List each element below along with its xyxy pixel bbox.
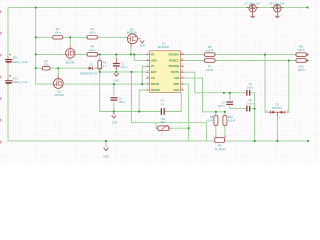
wire long loop x=131.5 down and across y=122.7 xyxy=(132,72,207,141)
wire R2-R3 row y=37.3 xyxy=(36,36,53,38)
svg-text:C1: C1 xyxy=(121,61,125,65)
svg-text:R7: R7 xyxy=(208,65,212,69)
wire R10 top stub xyxy=(224,112,226,116)
resistor R6 xyxy=(204,45,215,56)
wire C1 bottom xyxy=(115,68,117,72)
transistor Q1 xyxy=(53,75,64,97)
wire Q3 drain drop xyxy=(69,37,71,46)
wire R5 bottom to gnd row xyxy=(99,69,101,111)
svg-text:1 u: 1 u xyxy=(160,102,164,106)
wire left column battery mid xyxy=(7,64,9,78)
resistor R4 xyxy=(87,45,98,57)
svg-text:33 k: 33 k xyxy=(44,62,50,66)
svg-text:2N7002: 2N7002 xyxy=(54,93,64,97)
svg-text:SRP: SRP xyxy=(173,82,179,86)
ground under C1 xyxy=(114,73,120,83)
svg-text:R4: R4 xyxy=(91,45,95,49)
ground under C2 xyxy=(112,112,118,124)
battery BT2 xyxy=(5,75,27,85)
svg-text:100 R: 100 R xyxy=(206,119,213,123)
right pin stubs xyxy=(180,55,184,91)
wire IC pin7 to C3 row xyxy=(139,90,146,112)
svg-text:100 R: 100 R xyxy=(228,119,235,123)
wire C1 top drop xyxy=(115,54,117,58)
svg-text:PG/TS: PG/TS xyxy=(171,70,179,74)
svg-text:ISN: ISN xyxy=(174,76,179,80)
svg-text:R12: R12 xyxy=(299,65,304,69)
wire Q1 gate riser xyxy=(57,68,59,75)
wire row y=54.4 to IC pin1 xyxy=(36,53,66,55)
resistor R9 shunt xyxy=(213,136,229,151)
polarized cap C7 (top right) xyxy=(244,2,260,18)
svg-text:C8 100u 10V: C8 100u 10V xyxy=(269,2,285,6)
wire IC right row5 loop to R8/R10 top row xyxy=(184,78,225,112)
svg-text:BAT54C: BAT54C xyxy=(272,106,282,110)
svg-text:BSS138: BSS138 xyxy=(127,31,137,35)
wire R8 top stub xyxy=(215,112,217,116)
svg-text:PG/SDA: PG/SDA xyxy=(169,52,179,56)
wire thermistor right to SRP drop xyxy=(171,127,189,129)
resistor R12 xyxy=(296,59,307,72)
pin numbers left xyxy=(147,53,149,91)
svg-text:U1: U1 xyxy=(162,42,166,46)
svg-text:100 R: 100 R xyxy=(298,68,305,72)
wire D2 common cathode drop to rail xyxy=(276,116,278,141)
wire IC pin3 L x=142.2 xyxy=(142,66,146,84)
svg-text:BS108: BS108 xyxy=(66,60,75,64)
wire bottom rail right of shunt xyxy=(225,140,309,142)
wire C2 bottom drop xyxy=(113,102,115,112)
svg-text:R10: R10 xyxy=(228,115,233,119)
svg-text:100 n: 100 n xyxy=(247,102,254,106)
wire thermistor left L xyxy=(156,123,158,129)
svg-text:Battery_Cell: Battery_Cell xyxy=(12,60,27,64)
svg-text:MBR0540T1G: MBR0540T1G xyxy=(80,72,97,76)
transistor Q3 xyxy=(66,46,75,65)
resistor R8 xyxy=(206,115,218,125)
wire Q2 source drop xyxy=(130,47,132,54)
wire IC right row4 loop to C5 row xyxy=(184,72,247,93)
wire C2 riser xyxy=(113,84,115,95)
capacitor C3 xyxy=(160,99,164,115)
wire R5 top xyxy=(99,54,101,60)
wire C5 right to drop rail xyxy=(250,93,254,141)
wire R1-D1 row y=68.2 xyxy=(36,67,43,69)
wire REGN row y=84.1 xyxy=(36,83,53,85)
svg-text:1 k: 1 k xyxy=(103,64,107,68)
svg-text:R11: R11 xyxy=(299,45,304,49)
svg-text:C3: C3 xyxy=(160,99,164,103)
svg-text:100 n: 100 n xyxy=(218,104,225,108)
svg-text:GND: GND xyxy=(112,121,118,124)
wire VSS drop below IC xyxy=(180,93,182,112)
resistor R2 xyxy=(53,27,63,39)
wire vertical feed x=35.7 xyxy=(35,8,37,85)
resistor R7 xyxy=(204,59,215,72)
wire drop to diode pin1 xyxy=(265,55,268,113)
thermistor TH1 xyxy=(156,117,171,131)
svg-text:BT2: BT2 xyxy=(13,77,18,81)
polarized cap C8 (top right) xyxy=(269,2,285,18)
IC U1 xyxy=(146,42,184,93)
resistor R3 xyxy=(87,27,97,39)
svg-text:R8: R8 xyxy=(210,115,214,119)
pin numbers right xyxy=(181,53,184,91)
svg-text:Battery_Cell: Battery_Cell xyxy=(12,80,27,84)
svg-text:R1: R1 xyxy=(44,59,48,63)
svg-text:BT1: BT1 xyxy=(13,56,18,60)
svg-text:100 n: 100 n xyxy=(118,100,125,104)
svg-text:REG25: REG25 xyxy=(151,88,160,92)
svg-text:PS/HDQ: PS/HDQ xyxy=(169,64,179,68)
wire gnd row y=71.9 to IC pin4 xyxy=(100,71,146,73)
wire IC right row2 to R7 and R12 xyxy=(184,60,205,62)
svg-text:C5: C5 xyxy=(248,82,252,86)
pin names right xyxy=(169,52,180,91)
wire branch to IC pin2 xyxy=(134,54,146,60)
svg-text:100 R: 100 R xyxy=(298,48,305,52)
wire drop to diode pin2 xyxy=(286,61,289,113)
svg-text:R_Shunt: R_Shunt xyxy=(215,147,226,151)
capacitor C6 xyxy=(246,98,254,111)
svg-text:VEN: VEN xyxy=(151,58,157,62)
svg-text:C4: C4 xyxy=(221,101,225,105)
svg-text:100 k: 100 k xyxy=(89,48,96,52)
diode D1 xyxy=(80,62,97,75)
svg-text:GND: GND xyxy=(114,80,120,83)
resistor R1 xyxy=(42,59,50,70)
frame row marks (left edge) xyxy=(0,10,2,143)
ground mid-bottom xyxy=(103,148,109,159)
dual diode D2 xyxy=(266,103,288,120)
svg-text:100 R: 100 R xyxy=(206,68,213,72)
resistor R11 xyxy=(296,45,307,57)
wire C4 bottom to C6 row xyxy=(230,106,247,108)
svg-text:P1: P1 xyxy=(151,64,155,68)
wire C3 row y=111.5 xyxy=(100,111,161,113)
svg-text:100 k: 100 k xyxy=(54,30,61,34)
capacitor C4 xyxy=(218,101,233,109)
svg-text:R5: R5 xyxy=(103,60,107,64)
svg-text:P2: P2 xyxy=(151,52,155,56)
pin names left xyxy=(151,52,160,91)
transistor Q2 xyxy=(127,28,141,48)
wire left column lower + bottom rail xyxy=(8,85,215,142)
svg-text:BQ25100: BQ25100 xyxy=(158,45,170,49)
svg-text:GND: GND xyxy=(103,155,109,159)
svg-text:C7 100u 10V: C7 100u 10V xyxy=(244,2,260,6)
svg-text:R2: R2 xyxy=(56,27,60,31)
svg-text:100 n: 100 n xyxy=(121,65,128,69)
svg-text:PG/SCL: PG/SCL xyxy=(169,58,179,62)
svg-text:R6: R6 xyxy=(208,45,212,49)
wire C4 top drop xyxy=(229,93,231,100)
svg-text:R9: R9 xyxy=(218,144,222,148)
svg-text:CE: CE xyxy=(151,76,155,80)
ground at Q2 xyxy=(140,41,146,48)
svg-text:GND: GND xyxy=(140,44,146,47)
left pin stubs xyxy=(146,55,150,91)
wire R10 bottom drop xyxy=(224,125,226,135)
capacitor C5 xyxy=(246,82,254,96)
wire IC right row6 drop to rail xyxy=(184,84,189,141)
svg-text:D1: D1 xyxy=(89,62,93,66)
svg-text:REGN: REGN xyxy=(151,82,159,86)
resistor R10 xyxy=(223,115,235,125)
battery BT1 xyxy=(5,54,27,64)
svg-text:BAT: BAT xyxy=(151,70,157,74)
wire IC right row1 to R6 and R11 xyxy=(184,54,205,56)
wire R8 bottom drop xyxy=(215,125,217,135)
svg-text:R3: R3 xyxy=(90,27,94,31)
capacitor C1 xyxy=(113,58,128,70)
svg-text:10k: 10k xyxy=(160,120,165,124)
svg-text:100 k: 100 k xyxy=(89,30,96,34)
svg-text:VSS: VSS xyxy=(174,88,180,92)
svg-text:100 n: 100 n xyxy=(247,85,254,89)
wire C6 right xyxy=(250,108,254,110)
wire mid-bottom gnd stub xyxy=(105,141,107,147)
wire top rail xyxy=(8,8,308,57)
svg-text:C2: C2 xyxy=(118,96,122,100)
capacitor C2 xyxy=(111,96,126,104)
svg-text:100 R: 100 R xyxy=(206,49,213,53)
svg-text:C6: C6 xyxy=(248,98,252,102)
resistor R5 xyxy=(98,60,107,69)
